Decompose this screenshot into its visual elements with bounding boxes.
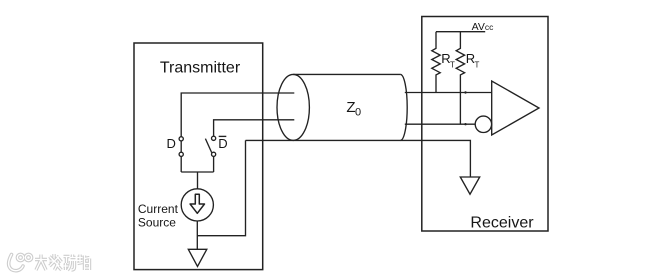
wire: long bottom rail xyxy=(246,140,471,177)
svg-text:Transmitter: Transmitter xyxy=(160,60,241,77)
svg-text:T: T xyxy=(450,61,455,70)
resistor R1 (RT to top line) xyxy=(432,32,440,93)
junction dot (lower wire) xyxy=(464,123,466,125)
svg-text:D: D xyxy=(218,136,227,151)
wire: current source to ground xyxy=(196,221,198,249)
switch D2 (D-bar input, open) xyxy=(212,136,216,140)
svg-text:Current: Current xyxy=(138,202,179,216)
watermark logo xyxy=(9,254,32,270)
ground (transmitter) xyxy=(188,249,207,266)
wire: drop to current source xyxy=(197,172,199,189)
svg-text:0: 0 xyxy=(355,107,361,119)
switch D1 (D input, closed) xyxy=(179,137,183,141)
svg-text:Receiver: Receiver xyxy=(470,215,534,232)
watermark text (stylized CJK) xyxy=(35,254,90,270)
junction dot (top wire) xyxy=(464,91,466,93)
svg-text:T: T xyxy=(475,61,480,70)
wire: cylinder to op-amp plus input (top) xyxy=(405,92,492,94)
wire: AVcc rail xyxy=(436,31,485,33)
wire: return path (current source to receiver ground rail) xyxy=(197,140,245,235)
svg-text:Source: Source xyxy=(138,216,176,230)
wire: cylinder to op-amp bubble input (lower) xyxy=(405,123,475,125)
resistor R2 (RT to lower line) xyxy=(456,32,464,125)
op-amp U1 xyxy=(492,81,539,135)
inversion bubble xyxy=(475,116,491,132)
wire: switch joiner xyxy=(181,171,213,173)
transmitter box xyxy=(134,43,263,270)
transmission line T1 (cylinder) xyxy=(277,74,309,140)
svg-text:D: D xyxy=(167,136,176,151)
svg-text:AVcc: AVcc xyxy=(472,21,494,33)
ground (receiver) xyxy=(460,177,479,194)
wire: node A elbow to cylinder (top line pair) xyxy=(181,93,294,137)
current source I1 xyxy=(181,189,213,221)
receiver box xyxy=(422,17,548,232)
wire: D-bar branch elbow to cylinder (lower line) xyxy=(214,120,295,137)
